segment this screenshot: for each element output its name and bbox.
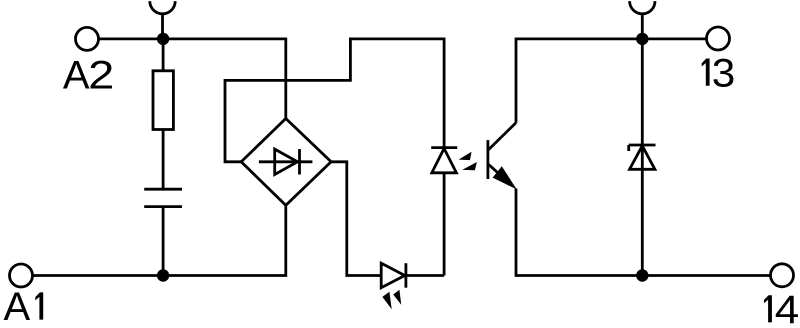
wire bridge left vertex to LED top	[225, 39, 444, 162]
zener diode D3	[629, 145, 656, 169]
wire capacitor to bottom rail	[162, 207, 165, 276]
wire socket stub to junction	[161, 13, 164, 39]
label A1	[4, 285, 44, 328]
wire emitter to output bottom rail	[516, 189, 642, 276]
wire socket stub to junction	[641, 13, 644, 39]
wire LED bottom to bottom path	[443, 173, 446, 276]
wire junction to resistor	[162, 39, 165, 71]
light arrows (opto coupling)	[459, 152, 477, 171]
resistor R1	[153, 71, 173, 130]
svg-text:2: 2	[88, 54, 114, 98]
terminal 14	[771, 264, 794, 287]
wire collector to output top rail	[516, 39, 642, 123]
node bottom junction (A1)	[157, 269, 169, 281]
bridge rectifier diamond	[241, 119, 331, 206]
wire junction to terminal 14	[642, 274, 770, 277]
wire A2 to bridge top	[99, 39, 286, 120]
node output bottom junction	[636, 269, 648, 281]
label 13	[702, 51, 736, 95]
wire output vertical branch	[641, 39, 644, 276]
phototransistor Q1	[488, 123, 517, 190]
light arrows (status LED)	[382, 290, 401, 310]
emitter	[489, 165, 510, 185]
emitter arrowhead	[493, 166, 517, 189]
label 14	[764, 288, 799, 328]
LED D2 (status)	[381, 263, 406, 288]
svg-text:3: 3	[712, 51, 736, 95]
bridge inner diode	[259, 149, 313, 174]
socket terminal (top right)	[630, 1, 655, 14]
label A2	[63, 54, 114, 98]
capacitor C1	[144, 189, 182, 206]
node output top junction	[636, 33, 648, 45]
wire bridge right vertex to status LED	[331, 162, 381, 276]
base bar	[486, 140, 489, 179]
wire resistor to capacitor	[162, 130, 165, 190]
socket terminal (top left)	[150, 1, 175, 14]
wire junction to terminal 13	[642, 38, 706, 41]
wire status LED to LED branch	[406, 274, 444, 277]
wire A1 bottom rail to bridge bottom	[33, 205, 286, 275]
collector	[489, 123, 516, 150]
LED D1 (optocoupler emitter)	[431, 148, 457, 173]
svg-text:A: A	[63, 54, 90, 98]
terminal A2	[76, 27, 99, 50]
terminal 13	[707, 27, 730, 50]
node input junction (A2)	[157, 33, 169, 45]
svg-text:4: 4	[775, 288, 800, 328]
terminal A1	[10, 264, 33, 287]
svg-text:A: A	[4, 285, 31, 328]
